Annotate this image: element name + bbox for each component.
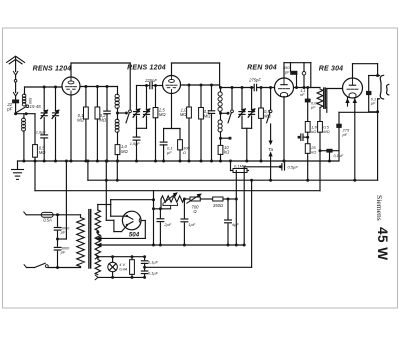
ground: [17, 161, 19, 170]
bandfilter coil 1a: [117, 87, 119, 95]
trimmer pair filter1: [136, 86, 138, 111]
svg-text:kΩ: kΩ: [311, 129, 316, 134]
anode wire T3: [294, 87, 321, 89]
capacitor 22pF (antenna series): [12, 100, 19, 104]
resistor 0.1M: [200, 85, 202, 108]
resistor 0.1M: [85, 87, 87, 108]
capacitor 0.1uF (bias bypass): [326, 149, 332, 153]
anode wire T2: [181, 84, 220, 86]
resistor 1.0M: [188, 85, 190, 107]
svg-text:pF: pF: [60, 231, 66, 235]
svg-text:225pF: 225pF: [144, 78, 157, 83]
wire to switch: [118, 112, 127, 114]
svg-text:kΩ: kΩ: [224, 150, 230, 155]
svg-text:2µF: 2µF: [163, 222, 172, 227]
resistor 1.8k: [305, 122, 310, 133]
switch (bandfilter 1): [129, 110, 132, 113]
tube V4 RE 304: [343, 78, 363, 98]
secondary winding HV: [95, 210, 100, 231]
speaker: [378, 75, 380, 77]
tube V3 REN 904: [275, 78, 294, 97]
capacitor 0.1uF cathode T2: [160, 141, 167, 143]
svg-text:RENS 1204: RENS 1204: [127, 65, 166, 72]
capacitor 4uF: [227, 199, 229, 219]
svg-text:MΩ: MΩ: [99, 118, 106, 123]
resistor 0.5M: [319, 108, 321, 122]
mains switch line: [24, 265, 26, 268]
drop from y190: [153, 191, 155, 245]
svg-text:µF: µF: [371, 102, 376, 106]
coil L1 (500): [24, 87, 26, 94]
fuse 0.5A: [41, 212, 53, 217]
rheostat (wirewound with slider): [161, 196, 184, 202]
svg-text:275pF: 275pF: [248, 78, 261, 83]
antenna: [7, 56, 25, 64]
resistor (heater): [131, 257, 133, 260]
bandfilter coil 1b: [115, 119, 119, 123]
capacitor + stub (grid bias): [298, 136, 301, 139]
svg-text:MΩ: MΩ: [159, 112, 166, 117]
capacitor: [211, 85, 213, 111]
HV top to rectifier: [97, 205, 99, 211]
svg-text:RE 304: RE 304: [319, 66, 344, 73]
coupling loop: [303, 63, 305, 72]
resistor 700 ohm variable: [184, 198, 190, 200]
svg-text:kΩ: kΩ: [311, 149, 316, 154]
grid wire T3 with 275pF: [221, 87, 254, 89]
svg-text:nF: nF: [300, 93, 305, 97]
rail drop filter2: [219, 63, 221, 88]
capacitor 550pF: [290, 63, 292, 71]
svg-text:MΩ: MΩ: [77, 118, 84, 123]
svg-text:REN 904: REN 904: [247, 65, 277, 72]
transformer core: [88, 210, 90, 268]
svg-text:µF: µF: [311, 106, 316, 110]
switch (mains): [35, 263, 46, 267]
rail segment C: [283, 63, 285, 78]
line y238 (tap arrow): [100, 237, 146, 239]
resistor 0.5M (antenna leak): [34, 114, 36, 145]
svg-text:MΩ: MΩ: [121, 149, 128, 154]
tube V5 504 rectifier: [122, 211, 141, 230]
transformer primary: [77, 218, 85, 267]
capacitor 0.1uF output: [369, 75, 378, 77]
mains caps 5000pF: [57, 215, 59, 227]
line y190: [34, 161, 36, 191]
capacitor 0.5uF: [281, 164, 283, 170]
lamp 4V 0.4A: [112, 257, 114, 263]
svg-text:0,1µF: 0,1µF: [148, 259, 159, 264]
stub y208.8: [154, 208, 171, 210]
cathode loop T2: [171, 94, 173, 129]
resistor 1.0M under coil: [117, 132, 119, 145]
svg-text:µF: µF: [167, 150, 172, 155]
svg-text:1,6µF: 1,6µF: [36, 129, 47, 134]
speaker return to bus2: [377, 112, 379, 180]
grid choke (zigzag + core): [317, 89, 323, 108]
anode rail segment B: [171, 63, 173, 76]
svg-text:Ω: Ω: [193, 209, 197, 214]
svg-text:0,5A: 0,5A: [43, 217, 52, 222]
B+ output: [141, 220, 145, 222]
switch (gramo): [270, 88, 272, 110]
svg-text:MΩ: MΩ: [180, 112, 187, 117]
rail segment D: [352, 64, 354, 78]
cathode T1 to bus: [70, 95, 72, 161]
capacitor 1.6uF cathode left: [43, 118, 45, 134]
AVC stub: [221, 137, 231, 139]
wire antenna node: [16, 113, 35, 115]
resistor 10k under coil2: [220, 132, 222, 146]
switch 15-45 (band switch): [16, 107, 26, 113]
drop to PSU: [243, 167, 245, 245]
bus 1 (chassis): [18, 160, 340, 162]
wire 0.5uF: [244, 166, 282, 168]
svg-text:1,6µF: 1,6µF: [130, 141, 141, 146]
coil 2b: [218, 120, 222, 124]
grid wire T2 with 225pF: [137, 85, 150, 87]
svg-text:RENS 1204: RENS 1204: [33, 66, 72, 73]
heater loop: [98, 256, 145, 258]
cathode T3 to bus: [283, 97, 285, 162]
coil 2a: [220, 88, 222, 92]
svg-text:pF: pF: [6, 107, 12, 112]
bus 2: [88, 179, 378, 181]
svg-text:Ta: Ta: [268, 147, 273, 152]
heater ground drop: [251, 180, 253, 267]
svg-text:MΩ: MΩ: [204, 114, 211, 119]
trimmer C (tuning gang b): [55, 87, 57, 111]
svg-text:0,5µF: 0,5µF: [288, 164, 299, 169]
svg-text:pF: pF: [284, 70, 290, 75]
wire to switch2: [221, 112, 229, 114]
svg-text:0,1µF: 0,1µF: [148, 271, 159, 276]
resistor 300 ohm cathode T2: [178, 140, 183, 150]
capacitor 275pF: [338, 112, 340, 123]
resistor 0.1M horizontal: [231, 170, 234, 172]
svg-text:15-45: 15-45: [30, 104, 42, 109]
tube V2 RENS 1204: [163, 76, 181, 94]
drop 236: [235, 171, 237, 246]
line y245 (tap arrow): [100, 244, 245, 246]
grid wire T1: [25, 86, 63, 88]
svg-text:45 W: 45 W: [375, 227, 390, 261]
tube V1 RENS 1204: [62, 77, 80, 95]
capacitor 1.6uF filter1: [136, 128, 138, 136]
anode rail segment A: [70, 63, 72, 77]
capacitor 2uF: [159, 209, 161, 218]
trimmer pair filter2: [241, 88, 243, 111]
resistor 25k: [305, 144, 310, 154]
wire y112: [339, 111, 378, 113]
coil L2: [23, 114, 25, 119]
switch filter2: [231, 110, 234, 113]
svg-text:500: 500: [28, 98, 32, 105]
terminal Ta: [270, 124, 272, 141]
svg-text:MΩ: MΩ: [39, 150, 46, 155]
svg-text:4µF: 4µF: [232, 222, 240, 227]
vertical from bus1: [230, 161, 232, 171]
resistor 0.2M: [96, 87, 98, 108]
capacitor (anode bypass): [106, 87, 108, 111]
svg-text:Siemens: Siemens: [375, 195, 384, 221]
capacitors 0.1uF pair: [144, 257, 146, 260]
secondary winding heater: [95, 260, 100, 275]
svg-text:504: 504: [129, 232, 140, 239]
anode wire T1: [80, 86, 118, 88]
capacitor 0.05uF anode block: [307, 88, 309, 99]
mains fuse line: [24, 212, 26, 215]
secondary winding mid: [95, 234, 100, 256]
svg-text:350Ω: 350Ω: [213, 203, 224, 208]
trimmer C (tuning gang a): [43, 87, 45, 111]
B+ line y199.7: [110, 200, 112, 205]
bus1 to mains drop: [65, 161, 67, 239]
svg-text:pF: pF: [60, 251, 66, 255]
svg-text:MΩ: MΩ: [323, 129, 329, 134]
resistor 2.5M grid leak: [155, 86, 157, 108]
resistor 350 ohm: [200, 198, 212, 200]
capacitor 1uF: [183, 199, 185, 218]
svg-text:0,4A: 0,4A: [119, 267, 127, 272]
wire L2 to bus: [23, 131, 25, 161]
pins with arrows: [347, 98, 349, 106]
resistor 0.5M grid leak T3: [260, 88, 262, 109]
svg-text:1µF: 1µF: [188, 222, 196, 227]
choke secondary line: [326, 89, 328, 108]
svg-text:pF: pF: [342, 132, 348, 137]
svg-text:Ω: Ω: [183, 150, 186, 155]
rail drop to switch: [129, 63, 131, 110]
